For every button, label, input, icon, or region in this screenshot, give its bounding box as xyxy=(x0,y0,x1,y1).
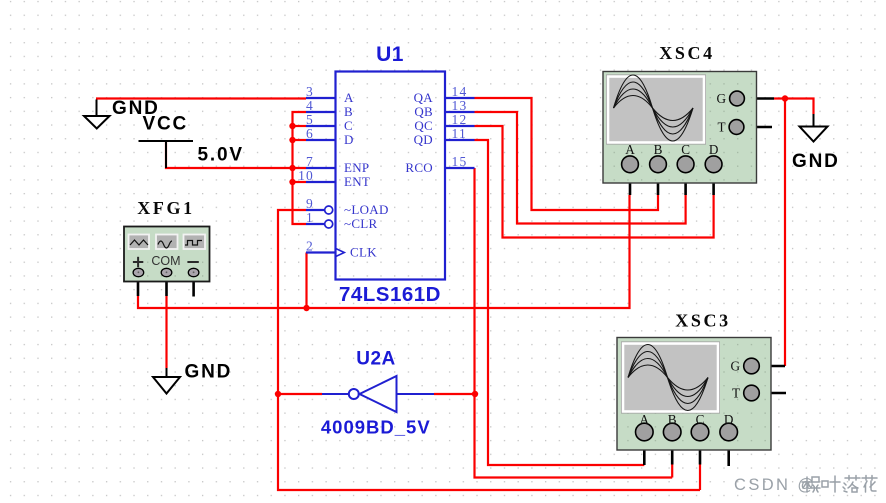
svg-text:A: A xyxy=(344,90,354,105)
svg-text:~LOAD: ~LOAD xyxy=(344,202,389,217)
svg-text:5: 5 xyxy=(306,112,314,127)
svg-text:5.0V: 5.0V xyxy=(198,145,244,166)
svg-text:T: T xyxy=(717,120,725,135)
svg-text:A: A xyxy=(625,142,635,157)
svg-text:GND: GND xyxy=(792,151,840,172)
svg-text:10: 10 xyxy=(298,168,314,183)
svg-text:XSC4: XSC4 xyxy=(659,43,714,63)
svg-text:11: 11 xyxy=(452,126,467,141)
svg-text:6: 6 xyxy=(306,126,314,141)
svg-text:14: 14 xyxy=(452,84,468,99)
svg-text:G: G xyxy=(716,91,726,106)
svg-text:C: C xyxy=(696,412,705,427)
svg-text:1: 1 xyxy=(306,210,314,225)
svg-text:C: C xyxy=(344,118,353,133)
svg-text:QC: QC xyxy=(414,118,433,133)
svg-text:RCO: RCO xyxy=(405,160,433,175)
svg-text:G: G xyxy=(730,359,740,374)
svg-text:2: 2 xyxy=(306,239,314,254)
svg-text:ENP: ENP xyxy=(344,160,369,175)
svg-text:QD: QD xyxy=(414,132,433,147)
svg-text:B: B xyxy=(344,104,353,119)
svg-text:7: 7 xyxy=(306,154,314,169)
svg-text:13: 13 xyxy=(452,98,468,113)
svg-text:VCC: VCC xyxy=(143,114,189,135)
svg-text:QA: QA xyxy=(414,90,434,105)
svg-text:D: D xyxy=(724,412,734,427)
svg-text:~CLR: ~CLR xyxy=(344,216,378,231)
svg-text:B: B xyxy=(654,142,663,157)
svg-text:3: 3 xyxy=(306,84,314,99)
svg-text:COM: COM xyxy=(151,254,180,268)
svg-text:CLK: CLK xyxy=(350,245,377,260)
svg-text:U2A: U2A xyxy=(356,349,396,370)
svg-text:12: 12 xyxy=(452,112,468,127)
svg-text:4009BD_5V: 4009BD_5V xyxy=(321,417,431,438)
svg-text:4: 4 xyxy=(306,98,314,113)
svg-text:15: 15 xyxy=(452,154,468,169)
svg-text:D: D xyxy=(709,142,719,157)
svg-text:U1: U1 xyxy=(376,43,404,66)
svg-text:T: T xyxy=(732,386,740,401)
svg-text:9: 9 xyxy=(306,196,314,211)
svg-text:ENT: ENT xyxy=(344,174,370,189)
svg-text:XFG1: XFG1 xyxy=(137,198,194,218)
svg-text:GND: GND xyxy=(185,362,233,383)
svg-text:QB: QB xyxy=(414,104,433,119)
svg-text:XSC3: XSC3 xyxy=(675,311,730,331)
svg-text:B: B xyxy=(668,412,677,427)
svg-text:D: D xyxy=(344,132,354,147)
svg-text:C: C xyxy=(681,142,690,157)
svg-text:74LS161D: 74LS161D xyxy=(339,283,441,306)
svg-text:A: A xyxy=(640,412,650,427)
